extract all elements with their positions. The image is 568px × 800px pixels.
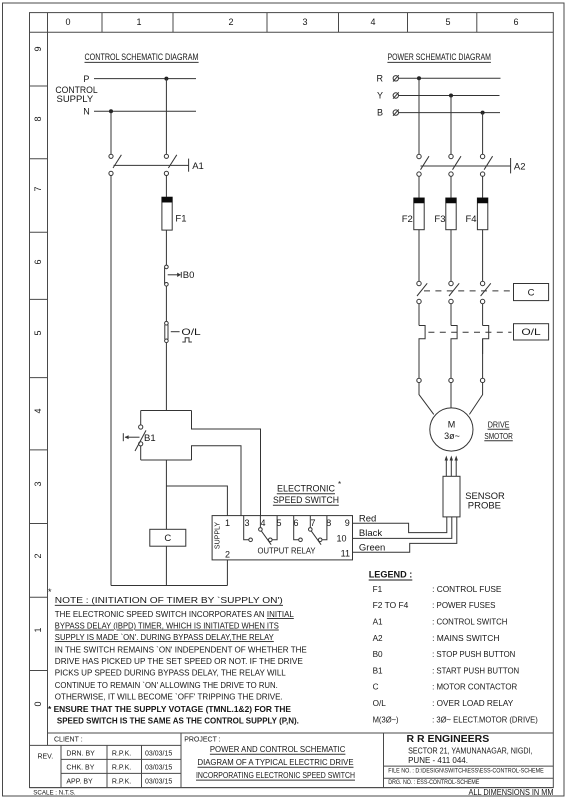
svg-text:4: 4 — [370, 17, 375, 27]
motor terminal circles — [417, 378, 485, 382]
contactor C main contacts — [417, 281, 512, 303]
svg-text:B1: B1 — [144, 433, 156, 444]
svg-text:R.P.K.: R.P.K. — [112, 765, 131, 772]
svg-text:: CONTROL FUSE: : CONTROL FUSE — [432, 585, 502, 594]
svg-text:DRG. NO. : ESS-CONTROL-SCHEME: DRG. NO. : ESS-CONTROL-SCHEME — [388, 779, 479, 786]
wire Y down to A2 — [450, 96, 452, 155]
wire A1 right pole down to F1 — [165, 176, 167, 198]
svg-text:10: 10 — [336, 534, 346, 544]
svg-text:SUPPLY: SUPPLY — [57, 94, 94, 104]
bottom rail wire — [111, 585, 227, 587]
svg-text:: OVER LOAD RELAY: : OVER LOAD RELAY — [432, 699, 514, 708]
wire Y bus — [399, 95, 500, 97]
fuse F1 — [162, 197, 187, 230]
title block texts — [37, 737, 220, 786]
svg-text:INCORPORATING ELECTRONIC SPE: INCORPORATING ELECTRONIC SPEED SWITCH — [196, 770, 355, 780]
svg-text:A1: A1 — [373, 617, 383, 626]
sensor arrows into motor — [445, 456, 458, 477]
wires overload to motor terminals — [418, 339, 420, 378]
svg-text:7: 7 — [33, 186, 43, 191]
motor M (3 phase drive motor) — [430, 408, 473, 451]
svg-text:5: 5 — [33, 330, 43, 335]
wire from P junction down to A1 right pole — [165, 79, 167, 154]
wire F1 to B0 — [165, 230, 167, 265]
wires fuses to contactor — [418, 230, 420, 282]
overload relay heater R phase — [419, 326, 425, 355]
switch A1 — [109, 154, 204, 175]
svg-text:C: C — [164, 533, 171, 544]
svg-text:: MOTOR CONTACTOR: : MOTOR CONTACTOR — [432, 683, 517, 692]
svg-text:CLIENT :: CLIENT : — [54, 737, 83, 744]
svg-text:4: 4 — [260, 518, 265, 528]
wire R bus — [399, 77, 501, 79]
svg-text:1: 1 — [33, 627, 43, 632]
wire B down to A2 — [482, 113, 484, 155]
svg-text:F4: F4 — [466, 214, 477, 225]
svg-text:5: 5 — [445, 17, 450, 27]
svg-text:R: R — [377, 73, 384, 83]
svg-text:6: 6 — [33, 259, 43, 264]
fuse F4 — [466, 198, 488, 230]
fuse F3 — [434, 198, 456, 230]
wire Red: ESS pin 9 to sensor probe — [353, 514, 447, 533]
svg-text:A2: A2 — [373, 634, 383, 643]
svg-text:* ENSURE THAT THE SUPPLY VOTAG: * ENSURE THAT THE SUPPLY VOTAGE (TMNL.1&… — [48, 704, 291, 714]
pushbutton B0 (stop, NC) — [165, 265, 195, 286]
junction on R bus — [417, 76, 421, 80]
svg-text:1: 1 — [136, 17, 141, 27]
wire coil C down to bottom rail — [165, 546, 167, 585]
svg-text:R R ENGINEERS: R R ENGINEERS — [407, 733, 490, 745]
svg-text:DRN. BY: DRN. BY — [66, 751, 95, 758]
svg-text:DRIVE: DRIVE — [488, 420, 510, 430]
legend rows — [373, 585, 538, 725]
wires contactor to overload — [418, 304, 420, 326]
svg-text:03/03/15: 03/03/15 — [145, 765, 172, 772]
wire Green: ESS pin 11 to sensor probe — [353, 517, 457, 554]
svg-text:SCALE : N.T.S.: SCALE : N.T.S. — [33, 790, 76, 797]
ESS relay contact pins 3-4-5 — [244, 516, 277, 545]
contactor coil C — [150, 529, 186, 546]
junction on N bus — [109, 109, 113, 113]
junction on Y bus — [449, 94, 453, 98]
svg-text:Black: Black — [359, 528, 382, 539]
svg-text:FILE NO. : D:\DESIGN\SWITCH\ES: FILE NO. : D:\DESIGN\SWITCH\ESS\ESS-CONT… — [388, 768, 544, 775]
svg-text:2: 2 — [228, 17, 233, 27]
svg-text:Red: Red — [359, 514, 376, 525]
phase Y label and terminal — [377, 91, 399, 101]
contactor C designation box — [514, 284, 549, 301]
svg-text:9: 9 — [345, 518, 350, 528]
svg-text:LEGEND :: LEGEND : — [369, 570, 413, 581]
wire B1 node down to coil C — [165, 460, 167, 529]
pushbutton B1 (start, NO) — [123, 425, 155, 451]
overload relay O/L designation box — [514, 324, 549, 340]
svg-text:PUNE - 411 044.: PUNE - 411 044. — [408, 756, 468, 765]
note block — [48, 587, 307, 726]
legend heading — [369, 570, 413, 581]
sensor probe — [443, 476, 505, 517]
fuse F2 — [402, 198, 424, 230]
svg-text:OTHERWISE, IT WILL BECOME `OFF: OTHERWISE, IT WILL BECOME `OFF' TRIPPING… — [55, 691, 283, 701]
overload relay heater B phase — [483, 326, 489, 355]
svg-text:*: * — [338, 480, 341, 489]
wire below B1 — [140, 446, 142, 460]
svg-text:PROJECT :: PROJECT : — [184, 737, 220, 744]
svg-text:CHK. BY: CHK. BY — [66, 765, 94, 772]
wire B bus — [399, 112, 501, 114]
wires A2 to fuses — [418, 176, 420, 198]
svg-text:03/03/15: 03/03/15 — [145, 779, 172, 786]
svg-text:B1: B1 — [373, 666, 383, 675]
svg-text:F1: F1 — [373, 585, 383, 594]
svg-text:9: 9 — [33, 46, 43, 51]
svg-text:B: B — [377, 108, 383, 118]
svg-text:: CONTROL SWITCH: : CONTROL SWITCH — [432, 617, 507, 626]
svg-text:3: 3 — [33, 481, 43, 486]
wire Black: ESS pin 10 to sensor probe — [353, 517, 452, 539]
svg-text:OUTPUT RELAY: OUTPUT RELAY — [258, 547, 317, 556]
svg-text:APP. BY: APP. BY — [66, 779, 93, 786]
overload relay heater Y phase — [451, 326, 457, 355]
svg-text:PICKS UP SPEED DURING BYPASS D: PICKS UP SPEED DURING BYPASS DELAY, THE … — [55, 668, 286, 678]
footer — [33, 788, 554, 797]
phase B label and terminal — [377, 108, 399, 118]
company block — [388, 733, 544, 786]
project description — [196, 744, 355, 780]
svg-text:O/L: O/L — [521, 327, 540, 338]
svg-text:4: 4 — [33, 408, 43, 413]
svg-text:POWER SCHEMATIC DIAGRAM: POWER SCHEMATIC DIAGRAM — [387, 52, 491, 62]
node P label — [83, 74, 89, 84]
power schematic title — [387, 52, 491, 62]
svg-text:ALL DIMENSIONS IN MM: ALL DIMENSIONS IN MM — [469, 788, 554, 797]
svg-text:CONTROL SCHEMATIC DIAGRAM: CONTROL SCHEMATIC DIAGRAM — [85, 52, 199, 62]
svg-text:IN THE SWITCH REMAINS `ON' IND: IN THE SWITCH REMAINS `ON' INDEPENDENT O… — [55, 644, 307, 654]
svg-text:0: 0 — [65, 17, 70, 27]
drive motor label — [484, 420, 513, 442]
svg-text:*: * — [48, 587, 52, 597]
svg-text:DIAGRAM OF A TYPICAL ELECT: DIAGRAM OF A TYPICAL ELECTRIC DRIVE — [198, 757, 354, 767]
svg-text:R.P.K.: R.P.K. — [112, 751, 131, 758]
svg-text:3: 3 — [302, 17, 307, 27]
svg-text:0: 0 — [33, 701, 43, 706]
phase R label and terminal — [377, 73, 399, 83]
svg-text:6: 6 — [513, 17, 518, 27]
ESS box U1 — [212, 516, 352, 560]
svg-text:: MAINS SWITCH: : MAINS SWITCH — [432, 634, 499, 643]
svg-text:: 3Ø~ ELECT.MOTOR (DRIVE): : 3Ø~ ELECT.MOTOR (DRIVE) — [432, 716, 538, 725]
svg-text:O/L: O/L — [373, 699, 387, 708]
svg-text:11: 11 — [341, 549, 350, 559]
svg-text:2: 2 — [225, 550, 230, 560]
svg-text:Y: Y — [377, 91, 383, 101]
svg-text:F1: F1 — [175, 214, 186, 225]
overload dashed link — [428, 331, 511, 333]
svg-text:F2: F2 — [402, 214, 413, 225]
control schematic title — [85, 52, 199, 62]
svg-text:C: C — [528, 287, 535, 298]
wire B0 to O/L contact — [165, 286, 167, 321]
svg-text:M: M — [448, 420, 456, 430]
svg-text:P: P — [83, 74, 89, 84]
wire from N junction down to A1 left pole — [110, 111, 112, 154]
svg-text:3ø~: 3ø~ — [444, 431, 460, 441]
junction on P bus — [164, 77, 168, 81]
wire R down to A2 — [418, 78, 420, 154]
svg-text:NOTE : (INITIATION OF TIMER BY: NOTE : (INITIATION OF TIMER BY `SUPPLY O… — [55, 595, 283, 605]
wire branch to ESS pin 1 — [166, 486, 227, 516]
wire ESS pin 2 down to bottom rail — [226, 560, 228, 586]
svg-text:R.P.K.: R.P.K. — [112, 779, 131, 786]
svg-text:ELECTRONIC: ELECTRONIC — [277, 484, 335, 494]
svg-text:DRIVE HAS PICKED UP THE SET SP: DRIVE HAS PICKED UP THE SET SPEED OR NOT… — [55, 656, 303, 666]
control supply label — [55, 85, 97, 104]
svg-text:: START PUSH BUTTON: : START PUSH BUTTON — [432, 666, 519, 675]
wire left branch down to B1 — [140, 411, 142, 425]
svg-text:B0: B0 — [183, 270, 195, 281]
svg-text:F3: F3 — [434, 214, 445, 225]
svg-text:SECTOR 21, YAMUNANAGAR, NIGDI,: SECTOR 21, YAMUNANAGAR, NIGDI, — [408, 747, 532, 756]
svg-text:SPEED SWITCH: SPEED SWITCH — [273, 495, 339, 505]
wire P bus — [94, 78, 196, 80]
svg-text:N: N — [83, 107, 90, 117]
svg-text:C: C — [373, 683, 379, 692]
title block — [30, 733, 554, 788]
junction on B bus — [481, 111, 485, 115]
ESS relay contact pins 6-7-8 — [294, 516, 327, 545]
svg-text:8: 8 — [33, 116, 43, 121]
switch A2 (mains, 3 pole) — [417, 154, 526, 176]
svg-text:: STOP PUSH BUTTON: : STOP PUSH BUTTON — [432, 650, 515, 659]
node N label — [83, 107, 90, 117]
svg-text:PROBE: PROBE — [468, 501, 501, 512]
svg-text:2: 2 — [33, 553, 43, 558]
svg-text:M(3Ø~): M(3Ø~) — [373, 716, 399, 725]
wire A1 left pole down to bottom rail — [110, 176, 112, 586]
wire O/L to B1 node — [165, 343, 167, 411]
svg-text:1: 1 — [225, 518, 230, 528]
wire lower right branch to ESS pin 3 — [192, 446, 242, 516]
svg-text:SMOTOR: SMOTOR — [484, 431, 513, 441]
svg-text:3: 3 — [244, 518, 249, 528]
svg-text:CONTINUE TO REMAIN `ON' ALLOWI: CONTINUE TO REMAIN `ON' ALLOWING THE DRI… — [55, 680, 278, 690]
overload relay aux contact O/L — [165, 321, 201, 342]
svg-text:SPEED SWITCH IS THE SAME AS TH: SPEED SWITCH IS THE SAME AS THE CONTROL … — [57, 716, 299, 726]
svg-text:F2 TO F4: F2 TO F4 — [373, 601, 409, 610]
wires terminals to motor — [419, 383, 434, 415]
svg-text:B0: B0 — [373, 650, 383, 659]
wire right branch to ESS pin 4 — [192, 411, 261, 516]
svg-text:SUPPLY IS MADE `ON'. DURING BY: SUPPLY IS MADE `ON'. DURING BYPASS DELAY… — [55, 632, 274, 642]
svg-text:BYPASS DELAY (IBPD) TIMER, WHI: BYPASS DELAY (IBPD) TIMER, WHICH IS INIT… — [55, 621, 279, 631]
svg-text:Green: Green — [359, 542, 385, 553]
svg-text:SUPPLY: SUPPLY — [215, 522, 222, 549]
svg-text:POWER AND CONTROL SCHEMATIC: POWER AND CONTROL SCHEMATIC — [210, 744, 346, 754]
svg-text:7: 7 — [310, 518, 315, 528]
wire N bus — [94, 110, 196, 112]
electronic speed switch heading — [273, 480, 341, 505]
svg-text:A1: A1 — [192, 161, 204, 172]
svg-text:O/L: O/L — [181, 327, 200, 338]
svg-text:A2: A2 — [514, 162, 526, 173]
wire B1 top tee — [141, 410, 192, 412]
svg-text:: POWER FUSES: : POWER FUSES — [432, 601, 496, 610]
svg-text:REV.: REV. — [37, 754, 53, 761]
wire B1 bottom tee — [141, 459, 192, 461]
svg-text:6: 6 — [293, 518, 298, 528]
svg-text:03/03/15: 03/03/15 — [145, 751, 172, 758]
svg-text:THE ELECTRONIC SPEED SWITCH IN: THE ELECTRONIC SPEED SWITCH INCORPORATES… — [55, 609, 294, 619]
